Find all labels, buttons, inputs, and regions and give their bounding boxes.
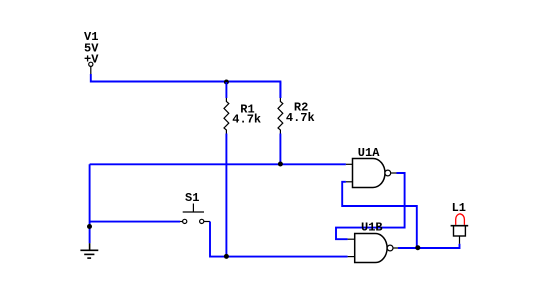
wire +V rail (91, 74, 281, 98)
power source V1 label (84, 30, 98, 44)
svg-text:4.7k: 4.7k (286, 111, 315, 125)
wire R2 bottom lead to mid rail (279, 134, 281, 165)
power terminal lead (90, 67, 92, 75)
junction dot at R2 bottom (278, 162, 283, 167)
NAND gate U1A (346, 159, 397, 188)
resistor R2 name label (294, 101, 308, 115)
switch S1 name label (185, 191, 199, 205)
wire R1 top lead (225, 82, 227, 98)
svg-text:S1: S1 (185, 191, 199, 205)
wire mid rail to U1A input A (90, 163, 346, 165)
wire U1B output to lamp (398, 244, 460, 248)
svg-text:L1: L1 (452, 201, 466, 215)
resistor R1 value label 4.7k (232, 113, 261, 127)
NAND gate U1B (348, 234, 398, 263)
switch S1 (180, 204, 210, 224)
wire U1A output to U1B input A (336, 173, 405, 239)
wire R2 top lead (279, 82, 281, 99)
resistor R2 (278, 98, 283, 134)
wire left drop to ground (89, 164, 91, 243)
resistor R1 (224, 98, 229, 134)
junction dot at R1 bottom (224, 254, 229, 259)
gate U1B name label (361, 220, 383, 234)
power terminal circle V1 (89, 62, 93, 66)
wire ground to switch S1 (90, 221, 180, 223)
net +V label (84, 53, 99, 67)
resistor R1 name label (240, 103, 254, 117)
wire R1 bottom lead to bottom rail (225, 134, 227, 257)
junction dot at R1 top (224, 80, 229, 85)
wire U1A input B feedback (342, 182, 417, 248)
lamp L1 (451, 214, 469, 244)
gate U1A name label (358, 146, 380, 160)
junction dot at U1B output (415, 245, 420, 250)
wire switch to bottom rail (210, 222, 348, 257)
resistor R2 value label 4.7k (286, 111, 315, 125)
ground (80, 243, 98, 258)
lamp L1 name label (452, 201, 466, 215)
svg-text:4.7k: 4.7k (232, 113, 261, 127)
svg-text:U1B: U1B (361, 220, 383, 234)
junction dot at ground tap (87, 224, 92, 229)
value 5V label (84, 42, 99, 56)
